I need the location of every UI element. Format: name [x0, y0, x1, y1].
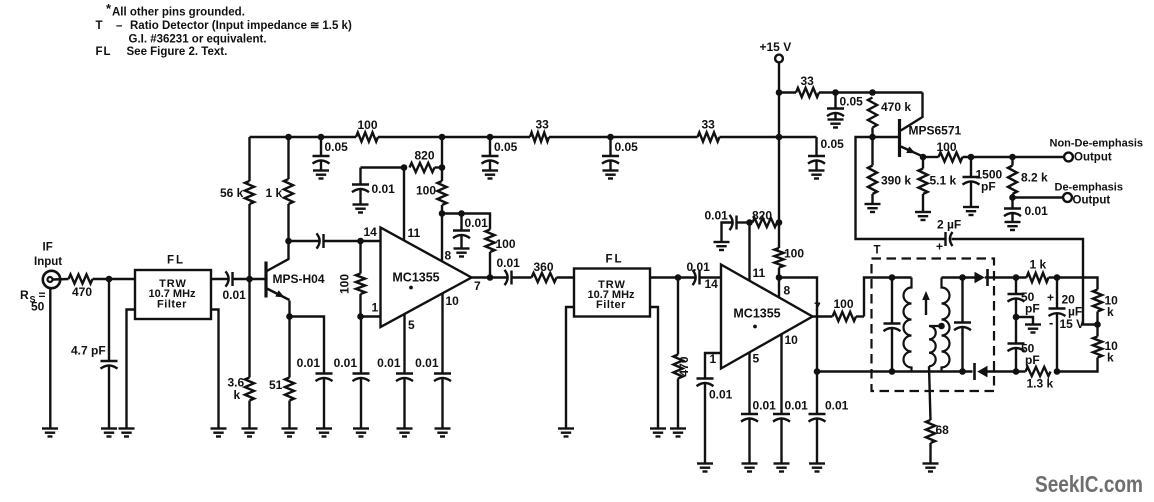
- ground (U2 pin1 cap): [697, 464, 713, 472]
- wire cap to R360: [512, 276, 532, 278]
- ground (rail bypass b): [482, 171, 498, 179]
- wire pin8 node right: [442, 212, 462, 214]
- svg-text:0.01: 0.01: [825, 399, 849, 413]
- svg-text:0.01: 0.01: [497, 256, 521, 270]
- node Q1 emitter: [286, 313, 293, 320]
- wire U1 pin 8 entry: [441, 214, 443, 262]
- resistor 1 k: [266, 179, 294, 204]
- pin label 8 (U2): [784, 284, 791, 298]
- resistor 360: [532, 260, 557, 282]
- svg-text:pF: pF: [981, 180, 996, 194]
- svg-text:De-emphasis: De-emphasis: [1055, 182, 1123, 194]
- pin label 5 (U1): [408, 318, 415, 332]
- capacitor 0.01 (U1 pin 1): [334, 317, 370, 429]
- ground (pin8 bypass): [454, 249, 470, 257]
- svg-text:MPS-H04: MPS-H04: [273, 272, 325, 286]
- wire de-emphasis output: [1013, 196, 1063, 198]
- pin label 5 (U2): [753, 352, 760, 366]
- wire +15 to R33: [779, 91, 796, 93]
- wire 1k node to 10k top: [1057, 278, 1098, 290]
- svg-text:33: 33: [702, 118, 716, 132]
- pin label 14 (U1): [364, 225, 378, 239]
- svg-text:5: 5: [408, 318, 415, 332]
- capacitor 2 uF: [936, 218, 961, 254]
- FL2 right leg to ground: [650, 307, 658, 429]
- svg-text:k: k: [234, 388, 241, 402]
- resistor 390 k: [868, 137, 911, 204]
- resistor 33 (Q2 collector feed): [796, 74, 819, 97]
- node rail 1k: [285, 134, 292, 141]
- svg-text:0.01: 0.01: [372, 182, 396, 196]
- resistor 100 (U2 output): [813, 297, 865, 321]
- wire cap to pin 14 node: [324, 240, 361, 242]
- watermark SeekIC.com: [1035, 471, 1143, 497]
- node +15 rail: [776, 134, 783, 141]
- node Q1 collector: [285, 238, 292, 245]
- pin label 8 (U1): [445, 249, 452, 263]
- pin label 1 (U2): [710, 352, 717, 366]
- svg-text:R: R: [20, 288, 29, 302]
- svg-text:51: 51: [269, 378, 283, 392]
- svg-text:11: 11: [408, 226, 421, 240]
- label RS = 50: [20, 288, 46, 314]
- resistor 10 k (bottom): [1093, 337, 1118, 365]
- transistor Q2 MPS6571: [873, 93, 962, 158]
- note line 4: FL see figure 2: [96, 46, 228, 58]
- svg-text:10: 10: [785, 333, 799, 347]
- svg-text:0.01: 0.01: [1025, 204, 1049, 218]
- node 820 left: [401, 164, 408, 171]
- svg-text:FL: FL: [96, 46, 112, 58]
- ground (51): [282, 429, 298, 437]
- svg-text:FL: FL: [606, 254, 624, 266]
- capacitor 0.01 (U1 pin 5): [377, 356, 413, 429]
- resistor 470 (input series): [69, 274, 93, 299]
- diode top (detector): [975, 269, 988, 286]
- ground (FL1 right): [211, 429, 227, 437]
- svg-text:0.01: 0.01: [753, 399, 777, 413]
- wire FL1 to C 0.01: [211, 278, 229, 280]
- node rail 0.05a: [318, 134, 325, 141]
- svg-text:0.01: 0.01: [709, 388, 733, 402]
- pin label 10 (U2): [785, 333, 799, 347]
- node 470k top: [869, 89, 876, 96]
- svg-text:7: 7: [474, 279, 481, 293]
- svg-text:0.01: 0.01: [297, 356, 321, 370]
- svg-text:T: T: [874, 245, 881, 257]
- capacitor 4.7 pF: [71, 279, 118, 429]
- svg-text:+: +: [1047, 291, 1054, 305]
- pin label 11 (U2): [753, 266, 766, 280]
- wire emitter to C0.01: [290, 317, 325, 374]
- ground (390 k): [865, 204, 881, 212]
- pin label 10 (U1): [446, 294, 460, 308]
- wire 820 left to cap: [361, 166, 405, 168]
- wire secondary top: [942, 276, 975, 278]
- capacitor 20 uF 15 V (electrolytic): [1047, 278, 1084, 372]
- capacitor (primary tank): [884, 278, 901, 372]
- svg-text:8: 8: [445, 249, 452, 263]
- node pin8 bypass: [458, 210, 465, 217]
- capacitor 0.05 (rail end bypass): [808, 137, 844, 171]
- node secondary center tap: [938, 323, 945, 330]
- wire U1 pin 11: [403, 168, 405, 241]
- capacitor 0.05 (rail bypass b): [482, 137, 518, 171]
- wire R470 to FL1: [93, 278, 136, 280]
- non-de-emphasis output terminal: [1050, 138, 1144, 164]
- ground (U2 pin10 cap): [774, 464, 790, 472]
- pin label 14 (U2): [705, 277, 719, 291]
- wire Q2 base to 2uF: [856, 137, 946, 239]
- capacitor 0.01 (U1 pin 10): [415, 356, 451, 429]
- +15 V terminal: [760, 40, 792, 62]
- svg-text:56 k: 56 k: [220, 186, 244, 200]
- capacitor 0.01 (U2 pin 1): [697, 353, 733, 464]
- node 1k right: [1054, 274, 1061, 281]
- capacitor (secondary tank): [954, 278, 971, 372]
- svg-text:0.01: 0.01: [687, 260, 711, 274]
- note line 2: T ratio detector: [96, 20, 352, 32]
- capacitor 0.01 (U2 input coupling): [678, 260, 710, 285]
- wire Q1 emitter down: [288, 301, 290, 317]
- ground (detector mid): [1025, 325, 1041, 333]
- IF input terminal: [34, 242, 62, 289]
- wire rail corner to R56k: [248, 137, 250, 181]
- resistor 100 (rail to U2 pin 8): [774, 223, 804, 278]
- svg-text:14: 14: [364, 225, 378, 239]
- svg-text:pF: pF: [1025, 302, 1040, 316]
- svg-text:Output: Output: [1073, 195, 1111, 207]
- resistor 1 k: [1027, 258, 1049, 283]
- pin label 7 (U2): [814, 300, 821, 314]
- svg-text:0.01: 0.01: [223, 288, 247, 302]
- capacitor 0.05 (Q2 feed bypass): [827, 93, 863, 120]
- svg-text:0.05: 0.05: [821, 137, 845, 151]
- svg-text:k: k: [1107, 305, 1114, 319]
- ground (U1 pin10 cap): [435, 429, 451, 437]
- capacitor 0.01 (820 U2 bypass): [705, 209, 737, 243]
- node secondary top: [959, 274, 966, 281]
- wire U2 output to primary: [864, 278, 912, 317]
- node 8.2k top: [1009, 154, 1016, 161]
- svg-text:Filter: Filter: [157, 299, 187, 311]
- svg-text:8.2 k: 8.2 k: [1021, 171, 1048, 185]
- svg-text:14: 14: [705, 277, 719, 291]
- wire transformer bottom: [817, 370, 973, 372]
- svg-text:Input: Input: [34, 256, 62, 268]
- node rail 0.05c: [607, 134, 614, 141]
- svg-text:50: 50: [31, 300, 45, 314]
- node input junction: [106, 276, 113, 283]
- ground (820 U2 bypass): [714, 242, 730, 250]
- wire Q2 emitter output: [923, 156, 1064, 158]
- svg-text:100: 100: [338, 274, 352, 294]
- resistor 100 (U1 pin14-pin1): [338, 241, 366, 317]
- svg-text:100: 100: [937, 140, 957, 154]
- capacitor 1500 pF: [963, 157, 1003, 207]
- resistor 470 k: [868, 98, 911, 128]
- filter FL2 TRW 10.7 MHz: [574, 254, 650, 317]
- capacitor 0.01 (Q1 emitter bypass): [297, 356, 333, 429]
- diode bottom (detector): [975, 363, 988, 380]
- svg-text:470: 470: [72, 285, 92, 299]
- wire U1 pin 5: [403, 314, 405, 374]
- resistor 820 (U1): [410, 149, 435, 173]
- wire collector to cap: [289, 240, 321, 242]
- pin label 7 (U1): [474, 279, 481, 293]
- resistor 5.1 k: [918, 157, 956, 212]
- svg-text:MC1355: MC1355: [392, 271, 439, 285]
- svg-text:MPS6571: MPS6571: [909, 124, 962, 138]
- svg-text:100: 100: [416, 184, 436, 198]
- note line 1: all other pins grounded: [106, 1, 245, 19]
- node de-emphasis: [1009, 194, 1016, 201]
- ground (emitter bypass): [316, 429, 332, 437]
- wire 2uF to 10k divider: [952, 239, 1098, 325]
- node base Q1: [246, 276, 253, 283]
- resistor 68: [926, 420, 949, 443]
- svg-text:100: 100: [496, 237, 516, 251]
- ground (de-emphasis cap): [1005, 222, 1021, 230]
- wire 1k to 20uF node: [1049, 276, 1058, 278]
- svg-text:k: k: [1107, 351, 1114, 365]
- svg-text:390 k: 390 k: [881, 174, 911, 188]
- transformer tertiary winding: [929, 326, 942, 366]
- capacitor 0.01 (de-emphasis): [1004, 198, 1048, 223]
- capacitor 0.05 (rail bypass a): [313, 137, 349, 171]
- ground (U1 pin5 cap): [397, 429, 413, 437]
- resistor 470 (U2 input): [673, 278, 691, 429]
- svg-text:+15 V: +15 V: [760, 40, 792, 54]
- pin label 11 (U1): [408, 226, 421, 240]
- wire FL2 to node: [650, 276, 678, 278]
- wire pin14 node to U1: [361, 240, 381, 242]
- pin label 1 (U1): [372, 301, 379, 315]
- node U2 input: [675, 274, 682, 281]
- node U2 pin 8: [776, 274, 783, 281]
- node 820-2 left: [746, 219, 753, 226]
- svg-text:2 µF: 2 µF: [937, 218, 961, 232]
- wire base node to R3.6k: [248, 279, 250, 378]
- ground (FL2 left): [558, 429, 574, 437]
- svg-text:See Figure 2. Text.: See Figure 2. Text.: [127, 46, 228, 58]
- wire Q1 collector up: [287, 241, 289, 260]
- wire top rail: [250, 136, 817, 138]
- transistor Q1 MPS-H04: [250, 259, 325, 300]
- svg-text:–: –: [116, 20, 123, 32]
- svg-text:8: 8: [784, 284, 791, 298]
- node U1 output: [487, 274, 494, 281]
- svg-text:T: T: [96, 20, 103, 32]
- svg-text:1: 1: [372, 301, 379, 315]
- wire 10k top to mid: [1096, 312, 1098, 337]
- wire R56k to base node: [248, 204, 250, 279]
- ground (470): [670, 429, 686, 437]
- wire U1 pin 10: [441, 294, 443, 374]
- svg-text:0.05: 0.05: [325, 140, 349, 154]
- ground (U1 pin1 cap): [353, 429, 369, 437]
- ground (rail end bypass): [809, 171, 825, 179]
- ground (U2 pin5 cap): [742, 464, 758, 472]
- ground (68): [923, 464, 939, 472]
- node 50pF mid: [1013, 314, 1020, 321]
- svg-text:15 V: 15 V: [1060, 317, 1085, 331]
- resistor 33 (rail right): [698, 118, 720, 142]
- filter FL1 TRW 10.7 MHz: [135, 255, 211, 320]
- svg-text:470: 470: [677, 356, 691, 376]
- wire R33 to collector wire: [819, 91, 923, 93]
- capacitor 0.01 (input coupling): [223, 271, 247, 302]
- node 1.3k right: [1054, 368, 1061, 375]
- wire U1 pin7 to coupling cap: [472, 276, 509, 278]
- de-emphasis output terminal: [1055, 182, 1123, 207]
- wire C to base node: [233, 278, 250, 280]
- svg-text:0.01: 0.01: [377, 356, 401, 370]
- svg-text:1 k: 1 k: [266, 186, 283, 200]
- svg-text:100: 100: [834, 297, 854, 311]
- node Q2 emitter: [920, 154, 927, 161]
- svg-text:33: 33: [536, 118, 550, 132]
- FL2 left leg to ground: [566, 307, 574, 429]
- wire 820 to pin11 node: [435, 166, 443, 168]
- svg-text:All other pins grounded.: All other pins grounded.: [112, 7, 245, 19]
- capacitor 0.01 (U2 pin 10): [773, 334, 808, 464]
- resistor 51: [269, 378, 294, 401]
- node 820-2 right: [776, 219, 783, 226]
- ground (rail bypass c): [603, 171, 619, 179]
- resistor 820 (U2): [752, 209, 777, 228]
- wire diode top to output net: [985, 276, 1027, 278]
- op-amp U2 MC1355: [721, 265, 813, 369]
- ground (detector return cap): [809, 464, 825, 472]
- FL1 right leg to ground: [211, 310, 219, 429]
- ground (FL1 left): [119, 429, 135, 437]
- wire R3.6k to ground: [248, 401, 250, 429]
- wire diode bottom to output net: [988, 370, 1026, 372]
- node U1 pin 8: [439, 210, 446, 217]
- svg-text:10: 10: [446, 294, 460, 308]
- node rail pin8 column: [439, 134, 446, 141]
- wire +15V column: [778, 62, 780, 222]
- svg-text:820: 820: [752, 209, 772, 223]
- svg-text:IF: IF: [43, 242, 53, 254]
- node detector top: [1013, 274, 1020, 281]
- resistor 10 k (top): [1093, 290, 1118, 320]
- resistor 8.2 k: [1008, 157, 1048, 198]
- wire input to R470: [53, 278, 69, 281]
- node rail 0.05b: [487, 134, 494, 141]
- capacitor 0.01 (U1 pin 8 bypass): [453, 214, 488, 249]
- resistor 100 (Q2 emitter): [937, 140, 963, 162]
- svg-text:0.01: 0.01: [785, 399, 809, 413]
- op-amp U1 MC1355: [381, 228, 472, 328]
- svg-text:SeekIC.com: SeekIC.com: [1035, 471, 1143, 497]
- svg-text:0.05: 0.05: [840, 95, 864, 109]
- svg-text:360: 360: [534, 260, 554, 274]
- node 1500 pF: [968, 154, 975, 161]
- ground (3.6 k): [242, 429, 258, 437]
- svg-text:4.7 pF: 4.7 pF: [71, 344, 106, 358]
- resistor 100 (pin8 to pin7): [462, 214, 516, 278]
- capacitor 50 pF (bottom): [1008, 317, 1040, 372]
- node +15 upper branch: [776, 89, 783, 96]
- resistor 1.3 k: [1026, 367, 1054, 391]
- node secondary bottom: [959, 368, 966, 375]
- wire R1k to collector node: [287, 204, 289, 241]
- node pin 1 U1: [357, 313, 364, 320]
- wire R360 to FL2: [557, 276, 575, 278]
- transformer primary winding: [904, 278, 912, 372]
- svg-text:470 k: 470 k: [881, 100, 911, 114]
- capacitor 50 pF (top): [1008, 278, 1040, 318]
- node primary top: [889, 274, 896, 281]
- capacitor 0.01 (detector return): [809, 372, 849, 464]
- coupling arrow: [922, 291, 930, 315]
- resistor 3.6 k: [228, 376, 255, 403]
- svg-text:Non-De-emphasis: Non-De-emphasis: [1050, 138, 1144, 150]
- svg-text:100: 100: [358, 118, 378, 132]
- svg-text:1 k: 1 k: [1030, 258, 1047, 272]
- capacitor 0.01 (U2 pin 5): [741, 353, 776, 464]
- FL1 left leg to ground: [127, 310, 136, 429]
- svg-text:FL: FL: [167, 255, 185, 267]
- wire emitter to R51: [288, 317, 290, 378]
- capacitor 0.01 (U1 output coupling): [497, 256, 521, 285]
- svg-text:0.01: 0.01: [415, 356, 439, 370]
- svg-text:G.I. #36231 or equivalent.: G.I. #36231 or equivalent.: [129, 34, 267, 46]
- resistor 56 k: [220, 181, 254, 204]
- svg-text:33: 33: [801, 74, 815, 88]
- capacitor 0.01 (Q1 collector coupling): [317, 233, 324, 248]
- svg-text:0.01: 0.01: [705, 209, 729, 223]
- wire R68 to ground: [929, 443, 931, 464]
- svg-text:MC1355: MC1355: [733, 307, 780, 321]
- ground (Q2 feed bypass): [828, 120, 844, 128]
- note line 3: GI 36231: [129, 34, 267, 46]
- node pin 14 U1: [357, 238, 364, 245]
- node 820 right: [439, 164, 446, 171]
- wire R51 to ground: [288, 401, 290, 429]
- resistor 100 (rail): [356, 118, 378, 142]
- wire input terminal to ground: [49, 288, 51, 429]
- ground (input): [42, 429, 58, 437]
- node Q2 base: [869, 134, 876, 141]
- wire cap to U2 pin 14: [700, 276, 722, 278]
- svg-text:1.3 k: 1.3 k: [1027, 377, 1054, 391]
- svg-text:0.05: 0.05: [615, 140, 639, 154]
- resistor 100 (rail to U1 pin 8): [416, 137, 447, 214]
- wire mid to ground stub: [1016, 317, 1033, 325]
- svg-text:Filter: Filter: [596, 299, 626, 311]
- ground (FL2 right): [650, 429, 666, 437]
- ground (5.1 k): [915, 212, 931, 220]
- wire 470k to base node: [871, 128, 873, 138]
- ground (4.7 pF): [101, 429, 117, 437]
- svg-text:7: 7: [814, 300, 821, 314]
- node primary bottom: [889, 368, 896, 375]
- ground (1500 pF): [963, 207, 979, 215]
- transformer secondary winding: [942, 278, 950, 372]
- svg-text:+: +: [936, 240, 943, 254]
- wire pin8-2 to detector return: [779, 278, 817, 372]
- svg-text:0.01: 0.01: [465, 216, 489, 230]
- svg-text:11: 11: [753, 266, 766, 280]
- node 0.05 Q2: [832, 89, 839, 96]
- wire 10k bottom to 1.3k row: [1057, 358, 1098, 372]
- node 10k mid: [1094, 321, 1101, 328]
- wire tertiary to R68: [929, 366, 931, 420]
- svg-text:Output: Output: [1074, 152, 1112, 164]
